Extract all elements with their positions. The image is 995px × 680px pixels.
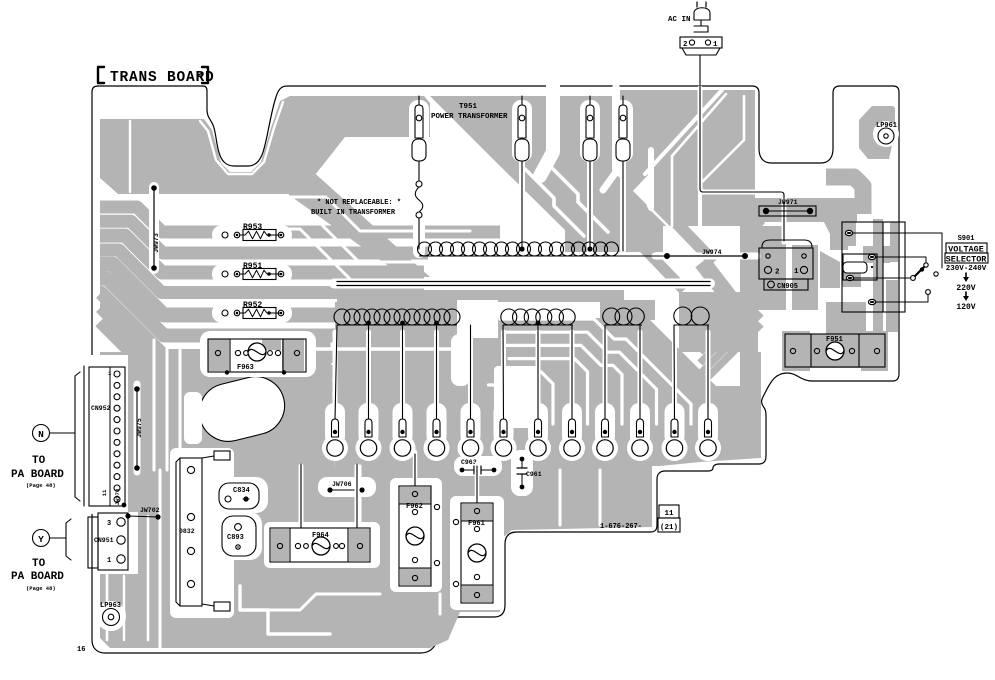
svg-text:2: 2 <box>683 41 688 49</box>
svg-text:JW974: JW974 <box>702 249 722 256</box>
svg-text:* NOT REPLACEABLE: *: * NOT REPLACEABLE: * <box>317 199 401 207</box>
svg-text:(Page 48): (Page 48) <box>26 585 56 592</box>
svg-text:11: 11 <box>101 489 108 496</box>
svg-text:C963: C963 <box>461 459 477 466</box>
svg-text:(21): (21) <box>660 524 678 532</box>
svg-text:AC IN: AC IN <box>668 16 691 24</box>
svg-text:11: 11 <box>664 510 674 518</box>
svg-text:C834: C834 <box>233 487 250 495</box>
svg-text:JW706: JW706 <box>332 481 352 488</box>
svg-text:N: N <box>38 429 44 440</box>
svg-text:0832: 0832 <box>179 528 195 535</box>
svg-text:R951: R951 <box>243 262 262 271</box>
svg-text:C961: C961 <box>526 471 542 478</box>
svg-text:CN952: CN952 <box>91 405 111 412</box>
svg-text:1: 1 <box>794 268 799 276</box>
svg-text:TRANS BOARD: TRANS BOARD <box>110 70 215 86</box>
svg-text:TO: TO <box>32 558 46 570</box>
svg-text:S901: S901 <box>958 235 975 243</box>
svg-text:TO: TO <box>32 455 46 467</box>
svg-text:F962: F962 <box>406 503 423 511</box>
svg-text:CN951: CN951 <box>94 537 114 544</box>
svg-text:CN905: CN905 <box>777 283 798 291</box>
svg-text:R952: R952 <box>243 301 262 310</box>
svg-text:JW975: JW975 <box>136 418 143 438</box>
svg-text:Y: Y <box>38 534 44 545</box>
svg-text:SELECTOR: SELECTOR <box>946 255 988 265</box>
svg-text:PA BOARD: PA BOARD <box>11 571 64 583</box>
svg-text:230V-240V: 230V-240V <box>946 265 987 273</box>
svg-text:3: 3 <box>107 520 111 528</box>
svg-text:PA BOARD: PA BOARD <box>11 469 64 481</box>
svg-text:C893: C893 <box>227 534 244 542</box>
svg-text:BUILT IN TRANSFORMER: BUILT IN TRANSFORMER <box>311 209 396 217</box>
svg-text:16: 16 <box>77 646 85 654</box>
svg-text:JW971: JW971 <box>778 199 798 206</box>
svg-text:(Page 48): (Page 48) <box>26 482 56 489</box>
svg-text:1: 1 <box>107 557 111 565</box>
svg-text:R953: R953 <box>243 223 262 232</box>
svg-text:F963: F963 <box>237 364 254 372</box>
svg-text:POWER TRANSFORMER: POWER TRANSFORMER <box>431 113 508 121</box>
svg-text:JW702: JW702 <box>140 507 160 514</box>
svg-text:1: 1 <box>713 41 718 49</box>
svg-text:LP961: LP961 <box>876 122 897 130</box>
svg-text:F961: F961 <box>468 520 485 528</box>
svg-text:JW973: JW973 <box>153 233 160 253</box>
svg-text:T951: T951 <box>459 103 478 111</box>
svg-text:JW970: JW970 <box>114 489 121 506</box>
svg-text:120V: 120V <box>956 303 975 312</box>
svg-text:2: 2 <box>775 269 780 277</box>
svg-text:1-676-267-: 1-676-267- <box>600 523 642 531</box>
